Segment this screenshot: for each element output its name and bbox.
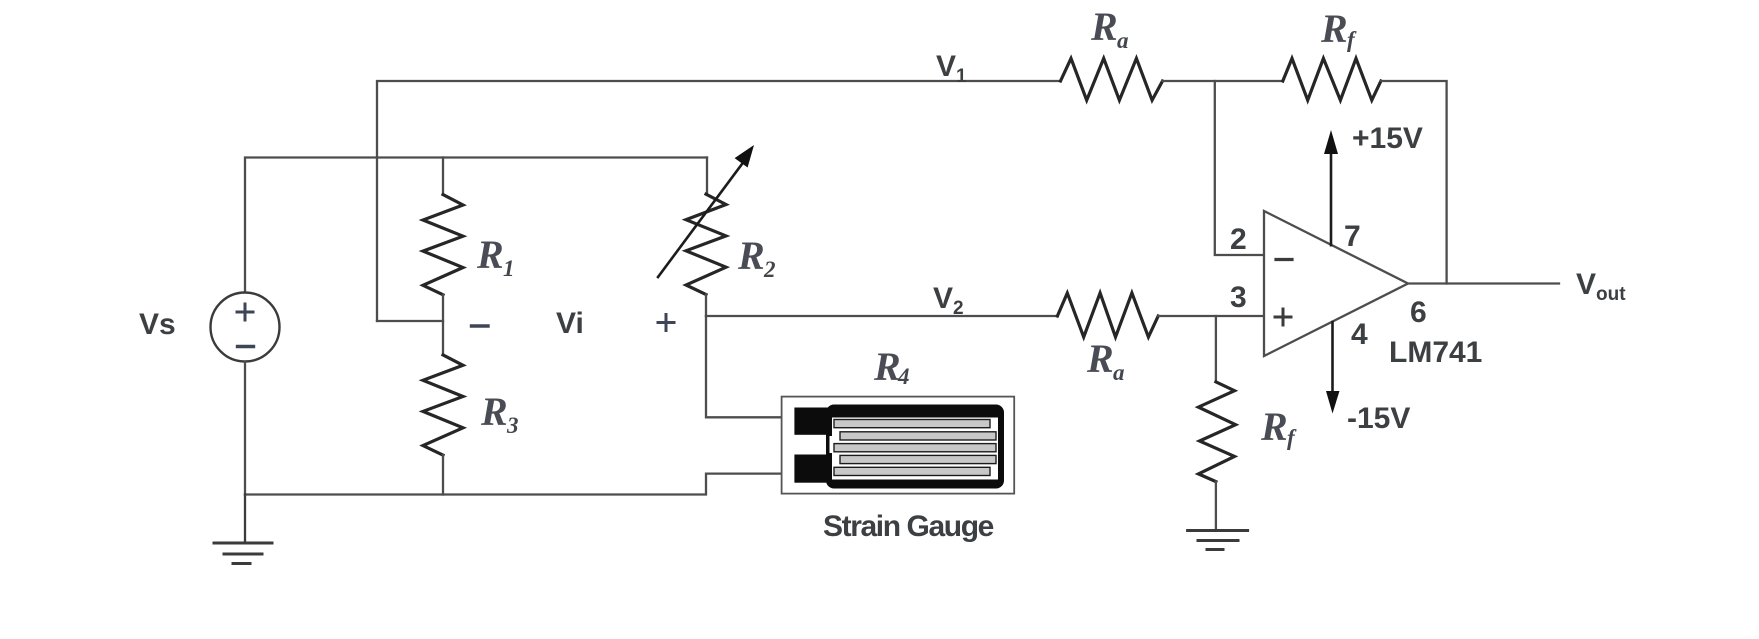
strain gauge grid black backing — [826, 405, 1004, 489]
wire: R1 top lead from rail — [442, 158, 444, 195]
wire: V2 node down to strain gauge top pad — [706, 316, 794, 417]
svg-text:Strain Gauge: Strain Gauge — [823, 510, 994, 543]
ground (below Vs) — [214, 495, 272, 564]
svg-text:R: R — [476, 232, 504, 277]
strain gauge pad gap — [830, 436, 834, 453]
wire: Rf bottom lead — [1215, 482, 1217, 531]
resistor R2 (variable) — [686, 194, 726, 294]
svg-text:4: 4 — [897, 364, 910, 389]
svg-text:2: 2 — [1230, 223, 1247, 256]
strain gauge lower solder pad — [794, 455, 829, 483]
strain gauge grid line 1 — [834, 420, 990, 428]
op-amp U1 triangle — [1264, 211, 1408, 356]
wire: junction down to pin 2 stub — [1215, 81, 1264, 255]
resistor R1 — [423, 195, 463, 295]
-15V supply arrow — [1331, 322, 1334, 392]
strain gauge serpentine window — [832, 418, 998, 480]
strain gauge grid line 2 — [840, 432, 996, 440]
op-amp inverting input minus — [1276, 258, 1292, 261]
svg-text:1: 1 — [503, 256, 515, 281]
wire: Ra to pin 3 — [1158, 315, 1264, 317]
svg-text:R: R — [873, 344, 901, 389]
svg-text:3: 3 — [1230, 281, 1247, 314]
svg-text:6: 6 — [1410, 296, 1427, 329]
wire: Ra to junction and on to Rf — [1163, 80, 1283, 82]
svg-text:2: 2 — [763, 257, 776, 282]
svg-text:f: f — [1347, 27, 1357, 52]
resistor Rf (feedback) — [1283, 58, 1381, 100]
Vs minus sign — [238, 345, 254, 348]
wire: Rf to output corner — [1381, 81, 1447, 284]
+15V supply arrow — [1330, 152, 1333, 245]
svg-text:+15V: +15V — [1352, 122, 1423, 155]
strain gauge grid line 5 — [834, 467, 990, 475]
svg-text:V1: V1 — [936, 50, 967, 87]
wire: op-amp output — [1408, 282, 1559, 284]
wire: bottom rail — [245, 474, 794, 495]
svg-text:-15V: -15V — [1347, 402, 1410, 435]
svg-text:R: R — [480, 389, 508, 434]
strain gauge R4: outer body — [782, 397, 1015, 494]
wire: R1 bottom to minus node — [442, 295, 444, 355]
R2 variable arrow — [658, 160, 745, 277]
wire: R2 bottom lead to V2 node — [705, 295, 707, 317]
svg-text:R: R — [1320, 6, 1348, 51]
svg-text:4: 4 — [1351, 318, 1368, 351]
wire: top V1 rail from bridge node to Ra — [377, 81, 1061, 321]
svg-text:a: a — [1113, 360, 1125, 385]
resistor R3 — [423, 355, 463, 455]
wire: R3 bottom lead — [442, 455, 444, 494]
svg-text:a: a — [1117, 28, 1129, 53]
voltage source Vs — [211, 293, 280, 362]
svg-text:R: R — [1090, 4, 1118, 49]
resistor Ra (top, inverting input) — [1061, 58, 1163, 100]
wire: V2 rail to Ra — [706, 315, 1057, 317]
strain gauge upper solder pad — [794, 408, 829, 435]
svg-text:f: f — [1287, 425, 1297, 450]
resistor Ra (non-inverting input) — [1057, 293, 1158, 337]
svg-text:3: 3 — [506, 413, 519, 438]
svg-text:7: 7 — [1344, 220, 1361, 253]
wire: bridge top rail — [245, 158, 707, 293]
strain gauge grid line 4 — [840, 455, 996, 463]
bridge minus sign — [472, 324, 489, 327]
svg-text:V2: V2 — [933, 282, 964, 319]
ground (below Rf) — [1188, 531, 1248, 550]
resistor Rf (to ground) — [1198, 382, 1235, 482]
bridge plus sign — [658, 315, 674, 331]
wire: Vs bottom to ground rail — [244, 362, 246, 495]
svg-text:LM741: LM741 — [1389, 336, 1482, 369]
svg-text:Vout: Vout — [1576, 268, 1626, 305]
svg-text:R: R — [1086, 336, 1114, 381]
op-amp non-inverting input plus — [1275, 309, 1291, 325]
wire: R2 top lead — [706, 158, 708, 195]
svg-text:R: R — [737, 233, 765, 278]
Vs plus sign — [237, 304, 253, 320]
svg-text:Vi: Vi — [556, 307, 584, 340]
wire: junction down to Rf (ground leg) — [1215, 316, 1217, 382]
wire: jog from V1 vertical to bridge minus node — [377, 320, 443, 322]
strain gauge grid line 3 — [834, 444, 996, 452]
svg-text:R: R — [1260, 404, 1288, 449]
svg-text:Vs: Vs — [139, 308, 176, 341]
